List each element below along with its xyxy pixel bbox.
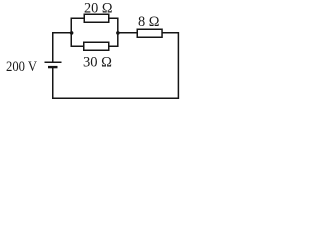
- junction node A (left dot): [70, 31, 74, 35]
- junction node B (right dot): [116, 31, 120, 35]
- wire: right parallel bus: [117, 18, 119, 48]
- wire: bottom branch left stub: [71, 45, 84, 47]
- svg-text:20 Ω: 20 Ω: [84, 0, 113, 16]
- resistor R1 20 ohm (box): [84, 14, 109, 22]
- svg-text:30 Ω: 30 Ω: [83, 54, 112, 70]
- wire: right junction to R3: [118, 32, 138, 34]
- svg-text:8 Ω: 8 Ω: [138, 14, 160, 30]
- wire: bottom branch right stub: [109, 45, 119, 47]
- battery V1 long positive plate: [45, 61, 62, 63]
- svg-text:200 V: 200 V: [6, 59, 37, 75]
- resistor R2 30 ohm (box): [84, 42, 109, 50]
- wire: R3 to top-right corner, down right side, along bottom, up to battery negative: [53, 33, 179, 98]
- wire: left parallel bus: [70, 18, 72, 48]
- resistor R3 8 ohm (box): [137, 29, 162, 37]
- wire: top branch left stub: [71, 17, 85, 19]
- wire: top branch right stub: [109, 17, 119, 19]
- battery V1 short thick negative plate: [48, 66, 58, 68]
- wire: battery positive up and over to left junction: [53, 33, 72, 62]
